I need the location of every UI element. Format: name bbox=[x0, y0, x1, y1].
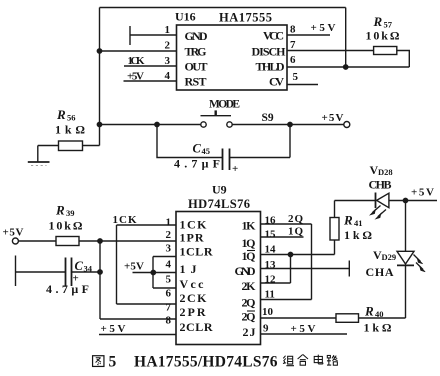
svg-text:2CLR: 2CLR bbox=[180, 320, 213, 334]
svg-text:1CK: 1CK bbox=[128, 55, 145, 67]
op-amp U16 HA17555 box bbox=[177, 25, 288, 90]
svg-text:9: 9 bbox=[263, 323, 269, 335]
svg-text:+5V: +5V bbox=[311, 22, 336, 34]
svg-text:1Q: 1Q bbox=[288, 226, 303, 238]
resistor R41 bbox=[330, 201, 339, 255]
svg-text:4: 4 bbox=[166, 259, 172, 271]
svg-text:2: 2 bbox=[165, 40, 171, 52]
svg-text:2Q: 2Q bbox=[242, 296, 256, 310]
wire U9 pin1 1CK bbox=[117, 224, 177, 226]
svg-text:3: 3 bbox=[165, 55, 171, 67]
svg-text:15: 15 bbox=[265, 229, 277, 241]
node 1PR junction bbox=[98, 239, 102, 243]
capacitor C34 bbox=[16, 258, 101, 287]
switch S9 pushbutton bbox=[201, 110, 233, 127]
node C34 junction bbox=[98, 270, 102, 274]
svg-text:VCC: VCC bbox=[263, 29, 284, 43]
node C45 left junction bbox=[155, 122, 159, 126]
svg-text:12: 12 bbox=[265, 274, 277, 286]
svg-text:Vcc: Vcc bbox=[180, 277, 205, 291]
wire switch row left bbox=[100, 124, 201, 126]
svg-text:34: 34 bbox=[84, 264, 93, 274]
LED VD28 arrows bbox=[370, 206, 386, 220]
wire U9 pin15 1Q stub bbox=[261, 236, 304, 238]
overline 2QB bbox=[247, 310, 255, 312]
svg-text:7: 7 bbox=[290, 39, 296, 51]
svg-text:1Q: 1Q bbox=[242, 249, 256, 263]
svg-text:45: 45 bbox=[202, 146, 211, 156]
wire 1QB to 2K bracket bbox=[261, 255, 291, 284]
wire U16 pin6 THLD bbox=[287, 66, 409, 68]
wire U9 pins 3-4-5 bracket bbox=[133, 257, 177, 289]
svg-text:+5V: +5V bbox=[411, 187, 434, 199]
overline 1QB bbox=[247, 250, 255, 252]
wire +5V down to VD29 bbox=[405, 201, 407, 252]
svg-text:+5V: +5V bbox=[322, 112, 344, 124]
svg-text:1: 1 bbox=[165, 24, 171, 36]
wire U9 pin8 2CLR +5V bbox=[99, 334, 176, 336]
svg-text:6: 6 bbox=[166, 288, 172, 300]
IC U9 HD74LS76 box bbox=[176, 212, 261, 345]
svg-text:MODE: MODE bbox=[209, 99, 240, 111]
svg-text:TRG: TRG bbox=[185, 45, 207, 59]
ground bbox=[28, 146, 50, 166]
node +5V terminal circle R39 bbox=[12, 238, 18, 244]
wire 1CK to 2CK vertical bbox=[116, 225, 118, 304]
LED VD29 bbox=[397, 251, 414, 318]
node 1QB junction bbox=[288, 252, 292, 256]
wire LED row bbox=[335, 200, 438, 202]
svg-text:1CLR: 1CLR bbox=[180, 245, 213, 259]
svg-text:1kΩ: 1kΩ bbox=[55, 123, 85, 137]
svg-text:1CK: 1CK bbox=[113, 214, 137, 226]
svg-text:56: 56 bbox=[67, 112, 76, 122]
node pins345 junction bbox=[151, 270, 155, 274]
caption hanzi dian bbox=[314, 355, 323, 364]
svg-text:2Q: 2Q bbox=[242, 310, 256, 324]
wire U16 pin4 RST +5V bbox=[124, 80, 177, 82]
wire U9 pin10 2QB bbox=[261, 317, 337, 319]
svg-text:C: C bbox=[193, 142, 202, 156]
svg-text:16: 16 bbox=[265, 215, 277, 227]
resistor R56 bbox=[38, 141, 100, 151]
svg-text:40: 40 bbox=[375, 309, 384, 319]
svg-text:R: R bbox=[364, 304, 374, 319]
wire U9 pin11 2Q bbox=[261, 299, 312, 301]
svg-text:13: 13 bbox=[265, 259, 277, 271]
svg-text:11: 11 bbox=[265, 289, 275, 301]
svg-text:S9: S9 bbox=[262, 112, 274, 124]
svg-text:+5V: +5V bbox=[124, 261, 144, 273]
svg-text:CV: CV bbox=[269, 75, 284, 89]
svg-text:2: 2 bbox=[166, 229, 172, 241]
wire U9 pin13 GND bbox=[261, 261, 350, 277]
caption bbox=[93, 354, 338, 371]
svg-text:1: 1 bbox=[166, 217, 172, 229]
wire top feedback loop bbox=[100, 8, 346, 146]
svg-text:+5V: +5V bbox=[3, 227, 24, 239]
svg-text:CHB: CHB bbox=[369, 178, 392, 192]
caption hanzi he bbox=[298, 354, 308, 365]
wire U9 pin6 2CK bbox=[117, 303, 177, 305]
svg-text:5: 5 bbox=[293, 71, 299, 83]
svg-text:HD74LS76: HD74LS76 bbox=[188, 197, 250, 211]
svg-text:2J: 2J bbox=[243, 325, 256, 339]
svg-text:+: + bbox=[232, 163, 238, 175]
svg-text:4.7μF: 4.7μF bbox=[174, 157, 220, 171]
svg-text:14: 14 bbox=[265, 244, 277, 256]
svg-text:+5V: +5V bbox=[127, 71, 144, 83]
caption hanzi tu bbox=[93, 356, 104, 367]
svg-text:6: 6 bbox=[290, 54, 296, 66]
svg-text:1kΩ: 1kΩ bbox=[344, 228, 372, 242]
svg-text:2Q: 2Q bbox=[288, 213, 303, 225]
svg-text:2PR: 2PR bbox=[180, 305, 206, 319]
wire U9 pin9 2J +5V bbox=[261, 333, 348, 335]
resistor R40 bbox=[336, 314, 406, 323]
LED VD28 bbox=[376, 193, 389, 209]
caption hanzi lu bbox=[327, 355, 338, 365]
svg-text:8: 8 bbox=[166, 315, 172, 327]
svg-text:DISCH: DISCH bbox=[252, 45, 287, 59]
svg-text:2CK: 2CK bbox=[180, 291, 208, 305]
wire U9 pin14 1QB bbox=[261, 254, 335, 256]
svg-text:C: C bbox=[75, 259, 84, 273]
wire 1K to 2Q vertical bbox=[311, 224, 313, 300]
svg-text:5: 5 bbox=[166, 274, 172, 286]
svg-text:4: 4 bbox=[165, 70, 171, 82]
wire U16 pin2 TRG bbox=[100, 50, 177, 52]
node C45 right junction bbox=[288, 122, 292, 126]
capacitor C45 plates bbox=[223, 149, 230, 171]
svg-text:1PR: 1PR bbox=[180, 231, 204, 245]
wire U16 pin8 VCC +5V bbox=[287, 34, 330, 36]
svg-text:HA17555: HA17555 bbox=[219, 11, 272, 25]
svg-text:10: 10 bbox=[262, 306, 274, 318]
resistor R57 bbox=[374, 47, 410, 68]
wire U16 pin3 OUT 1CK bbox=[124, 65, 177, 67]
node +5V terminal circle S9 bbox=[344, 122, 350, 128]
wire U16 pin7 DISCH bbox=[287, 50, 374, 52]
svg-text:HA17555/HD74LS76: HA17555/HD74LS76 bbox=[134, 354, 278, 371]
wire switch row right bbox=[232, 124, 343, 126]
svg-text:10kΩ: 10kΩ bbox=[366, 29, 400, 43]
svg-text:41: 41 bbox=[354, 218, 363, 228]
node TRG junction bbox=[97, 49, 101, 53]
caption hanzi zu bbox=[283, 356, 294, 366]
svg-text:GND: GND bbox=[235, 264, 256, 278]
svg-text:1CK: 1CK bbox=[180, 218, 208, 232]
svg-text:8: 8 bbox=[290, 24, 296, 36]
svg-text:U9: U9 bbox=[212, 183, 227, 197]
LED VD29 arrows bbox=[414, 255, 426, 272]
svg-text:1K: 1K bbox=[242, 219, 257, 233]
svg-text:39: 39 bbox=[66, 208, 75, 218]
svg-text:1Q: 1Q bbox=[242, 236, 256, 250]
svg-text:+5V: +5V bbox=[101, 323, 126, 335]
svg-text:R: R bbox=[56, 107, 66, 122]
svg-text:10kΩ: 10kΩ bbox=[49, 219, 83, 233]
svg-text:3: 3 bbox=[166, 243, 172, 255]
svg-text:U16: U16 bbox=[175, 10, 196, 24]
wire U16 pin5 CV stub bbox=[287, 84, 318, 86]
svg-text:7: 7 bbox=[166, 302, 172, 314]
svg-text:+5V: +5V bbox=[291, 323, 316, 335]
svg-text:5: 5 bbox=[109, 354, 117, 371]
svg-text:THLD: THLD bbox=[256, 60, 285, 74]
capacitor C45 loop wires bbox=[157, 125, 290, 158]
svg-text:D29: D29 bbox=[382, 252, 397, 262]
wire U9 pin7 2PR bbox=[100, 318, 176, 320]
svg-text:CHA: CHA bbox=[366, 265, 394, 279]
wire U9 pin16 1K bbox=[261, 223, 312, 225]
svg-text:GND: GND bbox=[185, 29, 208, 43]
node switch row left junction bbox=[97, 122, 101, 126]
svg-text:2K: 2K bbox=[242, 279, 257, 293]
svg-text:1J: 1J bbox=[180, 262, 197, 276]
svg-text:RST: RST bbox=[185, 75, 207, 89]
wire 1PR to 2PR vertical bbox=[99, 241, 101, 319]
wire U16 pin1 GND stub bbox=[130, 26, 177, 45]
svg-text:R: R bbox=[55, 203, 65, 218]
svg-text:R: R bbox=[373, 14, 383, 29]
svg-text:D28: D28 bbox=[378, 167, 393, 177]
resistor R39 bbox=[19, 237, 177, 246]
svg-text:OUT: OUT bbox=[185, 60, 208, 74]
capacitor C34 terminal bar bbox=[15, 256, 17, 287]
node THLD junction bbox=[344, 65, 348, 69]
svg-text:R: R bbox=[343, 213, 353, 228]
svg-text:4.7μF: 4.7μF bbox=[46, 282, 89, 296]
svg-text:1kΩ: 1kΩ bbox=[364, 321, 392, 335]
node +5V LED junction bbox=[403, 198, 407, 202]
